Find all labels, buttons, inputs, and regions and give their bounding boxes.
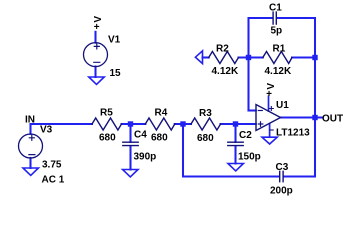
svg-text:C4: C4 bbox=[134, 129, 147, 140]
node junction R3-C2 bbox=[233, 121, 238, 126]
capacitor C1 bbox=[273, 12, 276, 24]
resistor R5 bbox=[92, 118, 122, 130]
svg-text:15: 15 bbox=[110, 68, 122, 79]
svg-text:R4: R4 bbox=[155, 107, 168, 118]
svg-text:680: 680 bbox=[99, 133, 116, 144]
wire inverting input stub bbox=[249, 109, 256, 111]
node junction R2-R1 bbox=[246, 55, 251, 60]
voltage source V1 bbox=[84, 43, 108, 67]
svg-text:390p: 390p bbox=[134, 151, 157, 162]
ground C2 bbox=[228, 164, 243, 171]
node junction R4-R3-C3 bbox=[180, 121, 185, 126]
svg-text:200p: 200p bbox=[270, 185, 293, 196]
svg-text:LT1213: LT1213 bbox=[276, 127, 310, 138]
svg-text:OUT: OUT bbox=[322, 113, 343, 124]
svg-text:C3: C3 bbox=[276, 162, 289, 173]
wire op-amp output to OUT bbox=[281, 116, 322, 118]
capacitor C4 bbox=[123, 142, 138, 145]
capacitor C2 bbox=[228, 142, 243, 145]
node junction OUT bbox=[312, 115, 317, 120]
resistor R1 bbox=[263, 52, 292, 64]
svg-text:+: + bbox=[94, 22, 100, 33]
svg-text:4.12K: 4.12K bbox=[265, 66, 292, 77]
wire op-amp V+ pin bbox=[268, 96, 270, 111]
svg-text:R2: R2 bbox=[216, 44, 229, 55]
node junction R5-C4 bbox=[128, 121, 133, 126]
svg-text:150p: 150p bbox=[238, 151, 261, 162]
wire R2 to R1 bbox=[239, 56, 263, 58]
wire C4 bottom stem bbox=[129, 146, 131, 170]
voltage source V3 bbox=[19, 134, 43, 158]
ground C4 bbox=[123, 170, 138, 177]
ground V3 bbox=[23, 168, 38, 175]
wire V1 bottom stem bbox=[94, 67, 96, 78]
wire C2 top stem bbox=[234, 125, 236, 142]
svg-text:680: 680 bbox=[197, 133, 214, 144]
wire V3 bottom stem bbox=[29, 158, 31, 168]
svg-text:IN: IN bbox=[25, 114, 35, 125]
svg-text:R3: R3 bbox=[199, 108, 212, 119]
wire flag to R2 bbox=[203, 56, 209, 58]
svg-text:5p: 5p bbox=[271, 25, 283, 36]
svg-text:+: + bbox=[266, 89, 272, 100]
wire C3 left lead to R4-R3 node bbox=[183, 124, 279, 177]
op-amp U1 bbox=[256, 105, 281, 131]
wire R3 to op-amp + input bbox=[221, 123, 256, 125]
capacitor C3 bbox=[280, 171, 283, 181]
wire left feedback vertical and C1 left lead bbox=[249, 18, 273, 111]
node junction R1-rail bbox=[312, 55, 317, 60]
resistor R2 bbox=[209, 52, 239, 64]
wire C4 top stem bbox=[129, 125, 131, 142]
svg-text:C1: C1 bbox=[269, 2, 282, 13]
ground V1 bbox=[89, 77, 104, 84]
wire R4 to R3 bbox=[175, 123, 191, 125]
svg-text:680: 680 bbox=[151, 132, 168, 143]
wire R1 to right rail bbox=[292, 56, 315, 58]
svg-text:R5: R5 bbox=[100, 107, 113, 118]
svg-text:R1: R1 bbox=[273, 43, 286, 54]
resistor R3 bbox=[191, 118, 221, 130]
wire C1 right lead and right vertical rail bbox=[277, 18, 315, 177]
svg-text:4.12K: 4.12K bbox=[212, 66, 239, 77]
wire IN node from V3 to R5 bbox=[31, 124, 93, 134]
svg-text:V3: V3 bbox=[40, 124, 53, 135]
wire V1 top stem bbox=[94, 32, 96, 43]
svg-text:C2: C2 bbox=[239, 130, 252, 141]
svg-text:AC 1: AC 1 bbox=[42, 174, 65, 185]
net flag at R2 left bbox=[195, 51, 202, 64]
svg-text:3.75: 3.75 bbox=[42, 160, 62, 171]
resistor R4 bbox=[145, 118, 175, 130]
wire R5 to R4 bbox=[122, 123, 146, 125]
svg-text:U1: U1 bbox=[276, 100, 289, 111]
ground op-amp V- bbox=[262, 137, 277, 144]
svg-text:V1: V1 bbox=[108, 34, 121, 45]
wire op-amp V- pin bbox=[269, 124, 271, 138]
wire C2 bottom stem bbox=[234, 146, 236, 164]
